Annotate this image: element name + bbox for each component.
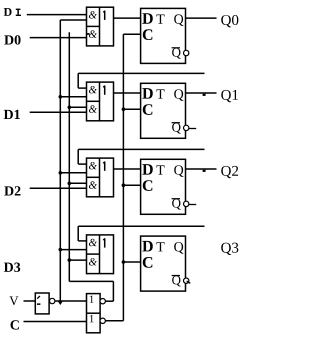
AND-OR selector block row 2 (cells &amp;, &amp;, 1) [87,82,114,121]
wire: Q feedback loop row 2 [78,73,204,88]
wire: V-not branch to upper AND row 1 [60,19,86,21]
wire: V-not branch to upper AND row 2 [60,96,86,98]
stub wire: Qbar output row 3 [189,204,196,206]
AND gate label "&amp;" lower cell row 4 [89,258,97,265]
D flip-flop row 3 [141,159,186,214]
pin label Q row 1 [174,14,183,26]
wire: V branch to lower AND row 4 [69,259,86,261]
inverter U5 (V) [35,293,49,314]
pin label D row 3 [142,164,152,175]
wire: block output to T input row 2 [114,92,141,94]
OR gate label "1" row 3 [103,162,105,171]
wire: C input row 3 [123,184,140,186]
junction: V-not tap (arrow mark) [58,301,63,305]
wire: V-not branch to upper AND row 3 [60,172,86,174]
wire: Q output row 2 [186,92,217,94]
pin label C row 3 [143,180,153,191]
input label DI (serial data) [4,8,21,16]
junction on V-not line row 2 [59,95,63,99]
junction nub on Q wire row 3 [203,170,206,172]
input label C [10,320,18,329]
gate B label "1" [90,315,94,322]
wire: V branch to lower AND row 3 [69,182,86,184]
inverted output label Qbar row 2 [172,123,181,134]
wire: Q output row 3 [186,168,217,170]
junction: clock tap row 4 [122,260,126,264]
wire: Q feedback loop row 4 [78,226,204,241]
AND gate label "&amp;" lower cell row 1 [89,30,97,37]
OR gate label "1" row 2 [103,86,105,95]
gate B output bubble [100,318,105,323]
AND gate label "&amp;" upper cell row 3 [89,162,97,169]
pin label T row 1 [156,15,164,24]
wire: block output to T input row 3 [114,168,141,170]
AND gate label "&amp;" upper cell row 1 [89,11,97,18]
wire: gate A output [105,300,113,302]
input label D3 (wire lost) [4,263,20,272]
inverted output label Qbar row 1 [172,48,181,59]
wire: C input row 4 [123,261,140,263]
output label Q0 [221,15,238,27]
input label D2 [4,186,20,195]
junction on V-not line row 3 [59,171,63,175]
pin label C row 4 [143,257,153,268]
inverted output bubble row 3 [184,201,189,206]
wire: C input row 2 [123,108,140,110]
pin label Q row 3 [174,165,183,177]
AND gate label "&amp;" lower cell row 3 [89,181,97,188]
wire: V-not branch to upper AND row 4 [60,249,86,251]
AND-OR selector block row 4 (cells &amp;, &amp;, 1) [87,235,114,274]
junction: clock tap row 3 [122,183,126,187]
AND gate label "&amp;" lower cell row 2 [89,105,97,112]
pin label C row 1 [143,29,153,40]
wire: clock vertical distribution [122,34,124,321]
inverter U5 output bubble [50,298,55,303]
wire: V input [24,300,36,302]
wire: V-not vertical distribution [59,20,61,301]
output label Q1 [221,90,238,102]
gate A output bubble [100,299,105,304]
pin label D row 2 [142,88,152,99]
AND gate label "&amp;" upper cell row 4 [89,239,97,246]
wire: V-not from inverter [55,300,87,302]
output label Q3 [221,243,238,255]
gate A label "1" [90,296,94,303]
inverted output label Qbar row 4 [172,276,181,287]
wire: V branch to lower AND row 2 [69,106,86,108]
stub remnant lower AND row 1 [87,33,90,35]
pin label T row 4 [156,242,164,251]
junction on V line row 2 [68,106,72,110]
pin label T row 2 [156,89,164,98]
pin label Q row 2 [174,89,183,101]
wire: Q feedback loop row 3 [78,149,204,164]
inverted output label Qbar row 3 [172,199,181,210]
OR gate label "1" row 1 [103,11,105,20]
wire: V vertical distribution [68,32,70,281]
pin label D row 4 [142,241,152,252]
wire: DI input [27,14,87,16]
wire: V route from gate A output [69,281,113,301]
D flip-flop row 4 [141,236,186,291]
wire: D2 input [30,187,87,189]
input label D1 [4,110,20,119]
inverted output bubble row 1 [184,50,189,55]
pin label D row 1 [142,13,152,24]
junction on V line row 4 [68,258,72,262]
stub wire: Qbar output row 2 [189,128,196,130]
D flip-flop row 2 [141,83,186,138]
inverted output bubble row 2 [184,125,189,130]
AND-OR selector block row 1 (cells &amp;, &amp;, 1) [87,7,114,46]
input label V [9,296,18,305]
OR gate label "1" row 4 [103,238,105,247]
wire: C input row 1 [123,33,140,35]
pin label Q row 4 [174,242,183,254]
junction on V line row 3 [68,182,72,186]
wire: gate B output to clock line [105,320,123,322]
junction: clock tap row 2 [122,107,126,111]
D flip-flop row 1 [141,8,186,63]
output label Q2 [221,166,238,178]
wire: C input [24,321,87,323]
AND gate label "&amp;" upper cell row 2 [89,86,97,93]
stub remnant: Qbar output row 4 [187,281,191,284]
wire: block output to T input row 1 [114,17,141,19]
input label D0 [4,35,20,44]
pin label C row 2 [143,104,153,115]
wire: D0 input [30,37,87,39]
AND-OR selector block row 3 (cells &amp;, &amp;, 1) [87,158,114,197]
junction on V-not line row 4 [59,248,63,252]
wire: Q output row 1 [186,17,217,19]
gate block U6: two NOT gates "1" [87,294,101,333]
pin label T row 3 [156,165,164,174]
wire: D1 input [30,111,87,113]
junction nub on Q wire row 2 [203,94,206,96]
inverted output bubble row 4 [184,278,189,283]
